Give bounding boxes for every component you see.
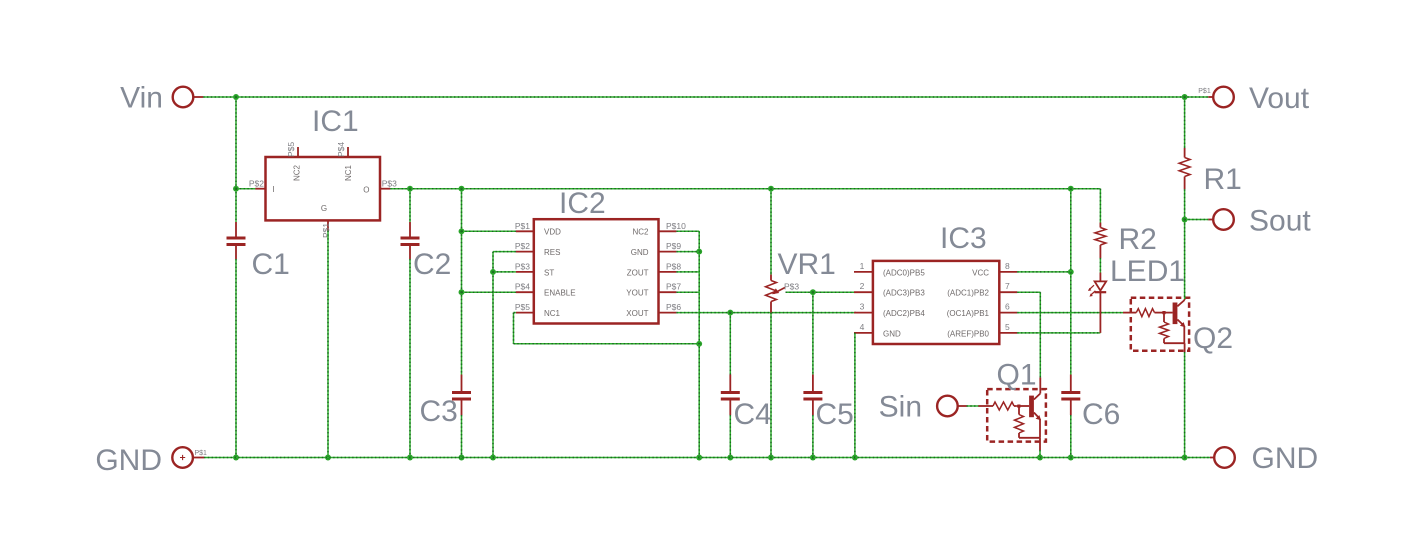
- IC1 pin P$1 (G): [321, 204, 331, 238]
- IC2 pin P$9 GND: [631, 241, 682, 257]
- wire VR1 wiper net: [786, 291, 857, 293]
- junction ST node: [490, 269, 496, 275]
- wire pin7 to Q1 collector: [1017, 292, 1040, 377]
- wire RES loop: [493, 252, 516, 272]
- capacitor C4: [721, 375, 772, 432]
- svg-text:P$1: P$1: [515, 221, 530, 231]
- svg-text:P$2: P$2: [249, 179, 264, 189]
- wire R1 to Sout: [1184, 189, 1186, 219]
- junction Vout column / top rail: [1182, 94, 1188, 100]
- wire pin5 to LED cathode: [1017, 332, 1100, 334]
- svg-text:IC2: IC2: [559, 187, 606, 220]
- port Sout: [1208, 205, 1311, 238]
- junction VR1 / mid rail: [768, 186, 774, 192]
- svg-text:YOUT: YOUT: [626, 289, 648, 298]
- wire C4 upper: [729, 313, 731, 375]
- wire NC1 loop under IC2: [514, 313, 700, 344]
- wire VCC net: [1017, 271, 1071, 273]
- svg-text:O: O: [363, 185, 369, 194]
- junction ENABLE branch: [459, 289, 465, 295]
- IC3 pin 2 (ADC3)PB3: [854, 281, 925, 297]
- wire mid rail corner to R2: [1099, 189, 1101, 223]
- svg-text:XOUT: XOUT: [626, 309, 648, 318]
- junction VCC net / C6 column: [1068, 269, 1074, 275]
- junction IC1 G / GND rail: [325, 455, 331, 461]
- junction C6 / GND rail: [1068, 455, 1074, 461]
- svg-text:(ADC0)PB5: (ADC0)PB5: [883, 268, 925, 277]
- svg-text:C2: C2: [413, 248, 451, 281]
- svg-text:ENABLE: ENABLE: [544, 289, 576, 298]
- svg-text:C5: C5: [816, 398, 854, 431]
- wire GND rail: [204, 457, 1210, 459]
- port Vin: [120, 82, 203, 115]
- IC2 pin P$8 ZOUT: [627, 261, 682, 277]
- svg-text:Q2: Q2: [1193, 322, 1233, 355]
- svg-text:P$5: P$5: [515, 302, 530, 312]
- svg-text:Q1: Q1: [997, 359, 1037, 392]
- svg-text:Sout: Sout: [1249, 205, 1311, 238]
- svg-text:P$10: P$10: [666, 221, 686, 231]
- IC2 pin P$4 ENABLE: [515, 282, 576, 298]
- Q2 bias resistor: [1160, 314, 1185, 343]
- IC2 pin P$6 XOUT: [626, 302, 681, 318]
- IC3 pin 3 (ADC2)PB4: [854, 302, 925, 318]
- IC2 pin P$10 NC2: [632, 221, 686, 237]
- svg-text:C1: C1: [252, 248, 290, 281]
- svg-text:C3: C3: [420, 395, 458, 428]
- Q2 input resistor: [1123, 309, 1162, 317]
- svg-text:NC2: NC2: [293, 164, 302, 181]
- transistor Q1 box: [987, 359, 1046, 442]
- svg-text:5: 5: [1005, 322, 1010, 332]
- svg-text:Vout: Vout: [1249, 82, 1310, 115]
- junction C4 / GND rail: [727, 455, 733, 461]
- junction RES-ST / GND rail: [490, 455, 496, 461]
- wire IC3 GND pin down: [854, 333, 856, 458]
- IC1 pin P$4 (NC1): [336, 142, 353, 181]
- capacitor C6: [1061, 375, 1120, 432]
- wire Sout node to port: [1185, 219, 1209, 221]
- resistor R1: [1179, 148, 1242, 196]
- capacitor C2: [401, 222, 452, 281]
- svg-text:GND: GND: [883, 329, 901, 338]
- svg-text:P$2: P$2: [515, 241, 530, 251]
- svg-text:4: 4: [860, 322, 865, 332]
- svg-text:7: 7: [1005, 281, 1010, 291]
- IC IC1 box: [266, 105, 381, 220]
- svg-text:VDD: VDD: [544, 228, 561, 237]
- junction IC2 GND pin: [696, 249, 702, 255]
- IC2 pin P$7 YOUT: [626, 282, 681, 298]
- wire VR1 lower to ground: [770, 313, 772, 458]
- port Sin: [879, 391, 967, 424]
- junction VDD branch: [459, 228, 465, 234]
- IC2 pin P$5 NC1: [515, 302, 561, 318]
- svg-text:R1: R1: [1204, 163, 1242, 196]
- transistor Q2: [1173, 299, 1186, 343]
- junction NC1 loop / GND2 column: [696, 341, 702, 347]
- wire C4 lower: [729, 415, 731, 458]
- svg-text:P$1: P$1: [321, 223, 331, 238]
- junction Sout node: [1182, 217, 1188, 223]
- svg-text:P$1: P$1: [1198, 88, 1211, 95]
- svg-text:ZOUT: ZOUT: [627, 268, 649, 277]
- wire VIN top rail: [203, 96, 1208, 98]
- svg-text:ST: ST: [544, 268, 554, 277]
- svg-text:P$3: P$3: [382, 179, 397, 189]
- junction IC3 GND / rail: [852, 455, 858, 461]
- IC3 pin 8 VCC: [972, 261, 1017, 277]
- svg-text:NC1: NC1: [544, 309, 561, 318]
- junction C5 / GND rail: [810, 455, 816, 461]
- wire VDD column: [461, 189, 463, 375]
- svg-text:P$3: P$3: [784, 282, 799, 292]
- wire VR1 upper: [770, 189, 772, 275]
- svg-text:I: I: [273, 185, 275, 194]
- wire Sout to Q2 collector: [1184, 220, 1186, 300]
- svg-text:VCC: VCC: [972, 268, 989, 277]
- junction IC1 input: [233, 186, 239, 192]
- IC1 pin P$3 (O): [363, 179, 397, 195]
- svg-text:C6: C6: [1082, 398, 1120, 431]
- variable resistor VR1: [766, 248, 836, 313]
- wire C6 column upper: [1070, 189, 1072, 375]
- svg-text:(ADC2)PB4: (ADC2)PB4: [883, 309, 925, 318]
- wire NC2 corner: [676, 231, 699, 251]
- IC1 pin P$2 (I): [249, 179, 275, 195]
- wire IC1 output rail: [390, 188, 1100, 190]
- wire Vout column upper: [1184, 97, 1186, 148]
- IC3 pin 1 (ADC0)PB5: [854, 261, 925, 277]
- junction VDD column / mid rail: [459, 186, 465, 192]
- wire VDD to IC2: [462, 230, 516, 232]
- svg-text:G: G: [321, 204, 327, 213]
- Q1 input resistor: [978, 402, 1016, 410]
- wire Q2 emitter to rail: [1184, 343, 1186, 457]
- svg-text:1: 1: [860, 261, 865, 271]
- svg-text:P$5: P$5: [286, 142, 296, 157]
- wire IC1 input from Vin column: [236, 188, 255, 190]
- wire C3 lower: [461, 415, 463, 458]
- wire Q1 emitter to rail: [1039, 438, 1041, 458]
- resistor R2: [1095, 223, 1157, 259]
- wire Vin column upper: [235, 97, 237, 222]
- svg-text:NC1: NC1: [344, 164, 353, 181]
- pin label P$1 of Vout: [1198, 88, 1211, 95]
- svg-text:P$1: P$1: [195, 450, 208, 457]
- wire pin6 to Q2 input: [1017, 312, 1123, 314]
- IC2 pin P$1 VDD: [515, 221, 561, 237]
- svg-text:Sin: Sin: [879, 391, 922, 424]
- svg-text:VR1: VR1: [778, 248, 836, 281]
- IC3 pin 6 (OC1A)PB1: [947, 302, 1017, 318]
- svg-text:GND: GND: [1252, 442, 1319, 475]
- transistor Q1: [1029, 378, 1041, 438]
- svg-text:8: 8: [1005, 261, 1010, 271]
- junction C3 / GND rail: [459, 455, 465, 461]
- junction VCC column / mid rail: [1068, 186, 1074, 192]
- wire GND2 column: [698, 252, 700, 458]
- junction C5 / wiper net: [810, 289, 816, 295]
- svg-text:GND: GND: [95, 444, 162, 477]
- IC1 pin P$5 (NC2): [286, 142, 302, 181]
- capacitor C1: [227, 222, 290, 281]
- junction GND2 column / rail: [696, 455, 702, 461]
- port GND left: [95, 444, 204, 477]
- svg-text:3: 3: [860, 302, 865, 312]
- junction C4 / XOUT net: [727, 310, 733, 316]
- wire ENABLE to IC2: [462, 291, 516, 293]
- wire Sin to Q1: [967, 405, 979, 407]
- wire RES/ST column to ground: [492, 272, 494, 458]
- wire YOUT to column: [676, 291, 699, 293]
- svg-text:P$6: P$6: [666, 302, 681, 312]
- wire C5 lower: [812, 415, 814, 458]
- junction Q1 emitter / GND rail: [1037, 455, 1043, 461]
- IC IC2 box: [534, 187, 659, 324]
- transistor Q2 box: [1131, 298, 1233, 355]
- svg-text:P$7: P$7: [666, 282, 681, 292]
- wire XOUT net: [676, 312, 856, 314]
- wire IC1 ground pin to rail: [327, 231, 329, 458]
- svg-text:(ADC3)PB3: (ADC3)PB3: [883, 289, 925, 298]
- svg-text:R2: R2: [1119, 223, 1157, 256]
- svg-text:P$4: P$4: [515, 282, 530, 292]
- junction Vin column / top rail: [233, 94, 239, 100]
- svg-text:(OC1A)PB1: (OC1A)PB1: [947, 309, 990, 318]
- capacitor C3: [420, 375, 472, 429]
- svg-text:P$3: P$3: [515, 261, 530, 271]
- LED LED1: [1088, 255, 1185, 297]
- svg-text:IC3: IC3: [940, 222, 987, 255]
- wire C5 upper: [812, 292, 814, 374]
- wire GND pin to column: [676, 251, 699, 253]
- wire Vin column lower: [235, 259, 237, 458]
- wire ZOUT to column: [676, 271, 699, 273]
- junction C2 / GND rail: [407, 455, 413, 461]
- svg-text:NC2: NC2: [632, 228, 649, 237]
- wire C6 lower: [1070, 415, 1072, 458]
- junction C1 / GND rail: [233, 455, 239, 461]
- IC2 pin P$3 ST: [515, 261, 554, 277]
- svg-text:(AREF)PB0: (AREF)PB0: [947, 329, 989, 338]
- IC2 pin P$2 RES: [515, 241, 561, 257]
- wire ST to IC2: [493, 271, 516, 273]
- svg-text:2: 2: [860, 281, 865, 291]
- pin label P$1 of GND left: [195, 450, 208, 457]
- capacitor C5: [803, 375, 853, 432]
- port Vout: [1208, 82, 1310, 115]
- IC3 pin 7 (ADC1)PB2: [947, 281, 1017, 297]
- Q1 bias resistor: [1015, 408, 1041, 438]
- svg-text:P$9: P$9: [666, 241, 681, 251]
- wire R2 to LED1: [1099, 258, 1101, 273]
- svg-text:6: 6: [1005, 302, 1010, 312]
- svg-text:P$4: P$4: [336, 142, 346, 157]
- svg-text:RES: RES: [544, 248, 560, 257]
- Q2 base node: [1162, 311, 1173, 314]
- IC3 pin 5 (AREF)PB0: [947, 322, 1017, 338]
- svg-text:C4: C4: [734, 398, 772, 431]
- wire LED1 cathode lead: [1099, 292, 1101, 333]
- junction C2 / mid rail: [407, 186, 413, 192]
- svg-text:P$8: P$8: [666, 261, 681, 271]
- wire C2 lower: [409, 259, 411, 458]
- svg-text:LED1: LED1: [1110, 255, 1185, 288]
- Q1 base node: [1017, 405, 1029, 408]
- junction Q2 emitter / GND rail: [1182, 455, 1188, 461]
- svg-text:IC1: IC1: [312, 105, 359, 138]
- svg-text:Vin: Vin: [120, 82, 163, 115]
- port GND right: [1210, 442, 1318, 475]
- wire C2 upper: [409, 189, 411, 222]
- svg-text:(ADC1)PB2: (ADC1)PB2: [947, 289, 989, 298]
- junction VR1 / GND rail: [768, 455, 774, 461]
- IC IC3 box: [873, 222, 999, 344]
- svg-text:GND: GND: [631, 248, 649, 257]
- IC3 pin 4 GND: [854, 322, 901, 338]
